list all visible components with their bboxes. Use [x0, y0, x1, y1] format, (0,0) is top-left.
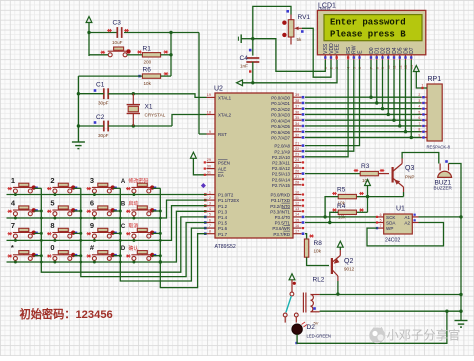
svg-text:5: 5: [209, 213, 211, 217]
resistor R1: [142, 53, 160, 57]
node row junction: [132, 193, 135, 196]
svg-text:U2: U2: [214, 86, 223, 93]
svg-text:P2.0/A8: P2.0/A8: [274, 144, 290, 149]
wire: [78, 125, 103, 127]
svg-text:17: 17: [295, 230, 299, 234]
keypad button row1 col1: [13, 183, 33, 193]
wire LCD D0 drop: [370, 60, 372, 97]
svg-text:X1: X1: [145, 104, 153, 111]
wire P3.5 SDA to U1 SDA: [305, 222, 378, 224]
svg-text:PSEN: PSEN: [218, 161, 230, 166]
node VCC/C3 junction: [87, 31, 90, 34]
keypad button row1 col4: [131, 183, 151, 193]
svg-text:P1.1/T2EX: P1.1/T2EX: [218, 198, 239, 203]
U2 pin 5 P1.4: [207, 216, 216, 218]
svg-text:P0.0/AD0: P0.0/AD0: [271, 95, 290, 100]
wire P0.7 bus: [305, 136, 421, 138]
svg-text:10k: 10k: [144, 81, 152, 86]
wire P2.5 to R3: [305, 173, 360, 175]
wire P3.7 to R8: [305, 234, 307, 239]
ground (crystal): [72, 142, 85, 149]
node row junction: [132, 217, 135, 220]
wire LCD D6 drop: [405, 60, 407, 132]
svg-text:200: 200: [144, 60, 152, 65]
node D1/P0.1: [375, 101, 378, 104]
power +5V (relay common): [289, 274, 295, 280]
wire +5V to VEE: [243, 60, 337, 83]
svg-text:P1.7: P1.7: [218, 232, 228, 237]
svg-text:P2.6/A14: P2.6/A14: [272, 177, 291, 182]
RP1 pin 5: [421, 113, 427, 115]
svg-text:24: 24: [295, 158, 299, 162]
wire P0.3 bus: [305, 113, 421, 115]
svg-text:3: 3: [209, 202, 211, 206]
svg-text:18: 18: [207, 110, 211, 114]
svg-text:21: 21: [295, 141, 299, 145]
wire RS to P2.2: [305, 60, 348, 157]
wire P0.6 bus: [305, 131, 421, 133]
RV1 terminal marks: [282, 21, 286, 25]
svg-text:7: 7: [209, 224, 211, 228]
relay contact NO: [294, 313, 298, 317]
node column junction: [79, 210, 82, 213]
wire RST node vertical: [170, 33, 172, 77]
keypad button row3 col1: [13, 228, 33, 238]
keypad button row3 col2: [52, 228, 72, 238]
svg-text:P2.4/A12: P2.4/A12: [272, 166, 291, 171]
svg-text:C2: C2: [96, 114, 105, 121]
wire R5-right / Q3 emitter: [356, 196, 403, 198]
node: [169, 31, 172, 34]
capacitor C4: [246, 58, 259, 62]
U1 pin 5 SDA: [378, 222, 384, 224]
U2 pin 19 XTAL1: [207, 96, 216, 98]
svg-text:AT89S52: AT89S52: [215, 244, 236, 250]
U2 pin 1 P1.0/T2: [207, 194, 216, 196]
svg-text:RP1: RP1: [428, 76, 442, 83]
RP1 pin 8: [421, 131, 427, 133]
respack RP1 body: [427, 84, 442, 141]
svg-text:9: 9: [209, 130, 211, 134]
U2 pin 31 EA: [207, 174, 216, 176]
svg-text:P3.5/T1: P3.5/T1: [275, 221, 291, 226]
node crossing: [119, 239, 122, 242]
microcontroller U2 AT89S52 body: [215, 93, 293, 238]
wire: [78, 93, 103, 95]
wire A2 to WP: [367, 223, 444, 246]
node: [251, 37, 254, 40]
svg-text:P2.5/A13: P2.5/A13: [272, 172, 291, 177]
node column junction: [119, 232, 122, 235]
svg-text:1: 1: [209, 190, 211, 194]
node column junction: [119, 254, 122, 257]
svg-text:P1.2: P1.2: [218, 204, 228, 209]
svg-text:P2.2/A10: P2.2/A10: [272, 155, 291, 160]
node crossing: [159, 217, 162, 220]
U2 pin 39 P0.0/AD0: [293, 96, 302, 98]
svg-text:27: 27: [295, 175, 299, 179]
wire R6 to ground rail: [78, 75, 142, 77]
U2 pin 23 P2.2/A10: [293, 156, 302, 158]
node column junction: [40, 210, 43, 213]
svg-text:P3.2/INT0: P3.2/INT0: [270, 204, 290, 209]
wire C1 to XTAL1: [108, 94, 206, 98]
U2 pin 15 P3.5/T1: [293, 222, 302, 224]
crystal X1: [132, 94, 134, 105]
svg-text:RST: RST: [218, 132, 227, 137]
svg-text:C3: C3: [113, 20, 122, 27]
U2 pin 32 P0.7/AD7: [293, 136, 302, 138]
wire LCD D1 drop: [376, 60, 378, 103]
U2 pin 33 P0.6/AD6: [293, 131, 302, 133]
svg-text:3: 3: [90, 176, 94, 185]
U2 pin 35 P0.4/AD4: [293, 119, 302, 121]
U2 pin 9 RST: [207, 133, 216, 135]
node column junction: [119, 210, 122, 213]
svg-text:R4: R4: [337, 203, 346, 210]
svg-text:XTAL1: XTAL1: [218, 96, 232, 101]
node crossing: [40, 217, 43, 220]
U2 pin 36 P0.3/AD3: [293, 113, 302, 115]
U1 pin 6 SCK: [378, 216, 384, 218]
node row junction: [53, 217, 56, 220]
keypad button row4 col2: [52, 251, 72, 261]
svg-text:7: 7: [11, 221, 15, 230]
wire RST top: [171, 32, 199, 34]
wire RV1 wiper to VDD: [302, 28, 331, 77]
svg-text:6: 6: [90, 199, 94, 208]
keypad button row2 col3: [92, 206, 112, 216]
wire R4 left to SDA: [330, 212, 338, 222]
svg-text:P1.6: P1.6: [218, 226, 228, 231]
node crossing: [40, 239, 43, 242]
svg-text:R6: R6: [143, 67, 152, 74]
node: [77, 92, 80, 95]
wire LED to ground rail: [297, 311, 447, 343]
wire Q2 collector down: [337, 281, 339, 294]
svg-text:P3.7/RD: P3.7/RD: [273, 232, 290, 237]
power +5V (EA): [191, 152, 197, 158]
svg-text:30: 30: [207, 164, 211, 168]
wire: [89, 32, 117, 34]
keypad button row1 col2: [52, 183, 72, 193]
svg-text:*: *: [11, 243, 14, 252]
node row junction: [93, 239, 96, 242]
node column junction: [79, 232, 82, 235]
svg-text:PNP: PNP: [405, 175, 414, 180]
wire A1 to ground rail: [419, 216, 462, 218]
svg-text:RV1: RV1: [298, 14, 311, 21]
svg-text:24C02: 24C02: [385, 238, 400, 244]
node D7/P0.7: [410, 136, 413, 139]
wire LCD D7 drop: [410, 60, 412, 137]
wire P0.4 bus: [305, 119, 421, 121]
keypad button row4 col1: [13, 251, 33, 261]
node row junction: [53, 261, 56, 264]
RP1 pin 3: [421, 102, 427, 104]
resistor R8: [304, 239, 308, 257]
relay contact NC: [283, 313, 287, 317]
wire LCD D4 drop: [393, 60, 395, 120]
svg-text:RESPACK-8: RESPACK-8: [427, 145, 451, 150]
U2 origin diamond: [201, 183, 206, 188]
node D2/P0.2: [381, 107, 384, 110]
svg-text:P0.1/AD1: P0.1/AD1: [271, 101, 290, 106]
svg-text:8: 8: [50, 221, 54, 230]
svg-text:SCK: SCK: [386, 215, 396, 220]
wire keypad row 3 to P1.2: [7, 206, 207, 241]
wire power to RP1 pin1: [416, 72, 427, 89]
svg-text:D7: D7: [409, 47, 415, 54]
wire RV1 top to GND rail: [253, 6, 291, 38]
node: [251, 81, 254, 84]
wire: [108, 125, 172, 127]
capacitor C3: [117, 27, 121, 38]
svg-text:14: 14: [295, 213, 299, 217]
svg-text:A: A: [121, 179, 126, 185]
node: [366, 195, 369, 198]
node row junction: [53, 239, 56, 242]
RP1 pin 7: [421, 125, 427, 127]
U2 pin 38 P0.1/AD1: [293, 102, 302, 104]
wire LCD D5 drop: [399, 60, 401, 126]
keypad button row1 col3: [92, 183, 112, 193]
svg-text:P1.3: P1.3: [218, 209, 228, 214]
transistor Q3 PNP: [393, 159, 404, 193]
power +5V (LCD): [237, 80, 243, 86]
svg-text:28: 28: [295, 181, 299, 185]
power +5V (Q3/pullups): [365, 180, 371, 186]
wire: [89, 54, 108, 56]
node (col4/row4 cross): [159, 260, 162, 263]
svg-text:P3.3/INT1: P3.3/INT1: [270, 209, 290, 214]
U2 pin 21 P2.0/A8: [293, 145, 302, 147]
node: [77, 124, 80, 127]
svg-text:10k: 10k: [314, 248, 322, 253]
wire: [161, 54, 171, 56]
node: [459, 293, 462, 296]
relay common pin: [291, 280, 293, 292]
node column junction: [40, 232, 43, 235]
wire P3.4 SCL to U1 SCK: [305, 216, 378, 218]
svg-text:Q2: Q2: [344, 258, 353, 265]
svg-text:A1: A1: [404, 215, 410, 220]
wire keypad column 3 to P1.6: [120, 188, 206, 281]
node row junction: [93, 217, 96, 220]
node D3/P0.3: [387, 113, 390, 116]
keypad button row4 col4: [131, 251, 151, 261]
svg-text:10: 10: [295, 190, 299, 194]
node SDA: [328, 221, 331, 224]
node row junction: [14, 193, 17, 196]
wire C2 to XTAL2: [172, 115, 207, 127]
U2 pin 3 P1.2: [207, 205, 216, 207]
relay common contact: [290, 292, 294, 296]
svg-text:P2.3/A11: P2.3/A11: [272, 161, 290, 166]
keypad button row2 col4: [131, 206, 151, 216]
svg-text:P0.7/AD7: P0.7/AD7: [271, 136, 290, 141]
relay RL2 coil: [303, 293, 319, 313]
watermark logo: [369, 328, 385, 344]
svg-text:6: 6: [380, 213, 382, 217]
svg-text:A2: A2: [404, 221, 410, 226]
svg-text:初始密码：123456: 初始密码：123456: [20, 307, 113, 321]
wire RW to P2.1: [305, 60, 354, 151]
wire keypad row 1 to P1.0: [7, 194, 207, 196]
svg-text:LM016L: LM016L: [318, 7, 331, 11]
svg-text:P0.4/AD4: P0.4/AD4: [271, 118, 290, 123]
wire ground vertical: [77, 76, 79, 142]
wire keypad row 2 to P1.1: [7, 200, 207, 218]
U2 pin 29 PSEN: [207, 161, 216, 163]
power +5V (RP1): [413, 66, 419, 72]
svg-text:XTAL2: XTAL2: [218, 113, 232, 118]
wire P0.2 bus: [305, 108, 421, 110]
svg-text:P1.4: P1.4: [218, 215, 228, 220]
svg-text:CRYSTAL: CRYSTAL: [145, 113, 166, 118]
RP1 pin 4: [421, 108, 427, 110]
svg-text:35: 35: [295, 116, 299, 120]
node column junction: [79, 254, 82, 257]
node crossing: [79, 261, 82, 264]
svg-text:D: D: [121, 246, 126, 252]
svg-text:19: 19: [207, 93, 211, 97]
capacitor C2: [104, 121, 108, 132]
transistor Q2 9012: [332, 250, 340, 281]
svg-text:5k: 5k: [297, 37, 303, 42]
keypad button row3 col3: [92, 228, 112, 238]
svg-text:R5: R5: [337, 187, 346, 194]
LCD1 LM016L body: [317, 10, 425, 54]
RP1 pin 2: [421, 96, 427, 98]
svg-text:5: 5: [50, 199, 54, 208]
node crossing: [119, 217, 122, 220]
svg-text:2: 2: [50, 176, 54, 185]
U2 pin 12 P3.2/INT0: [293, 205, 302, 207]
wire: [339, 247, 341, 250]
svg-text:Enter password: Enter password: [330, 18, 406, 28]
svg-text:29: 29: [207, 158, 211, 162]
svg-text:26: 26: [295, 169, 299, 173]
wire: [88, 23, 90, 57]
eeprom U1 24C02 body: [384, 214, 413, 234]
svg-text:R8: R8: [314, 240, 323, 247]
svg-text:9012: 9012: [344, 267, 355, 272]
U2 pin 22 P2.1/A9: [293, 150, 302, 152]
svg-text:9: 9: [90, 221, 94, 230]
node: [445, 310, 448, 313]
node column junction: [159, 210, 162, 213]
U2 pin 2 P1.1/T2EX: [207, 199, 216, 201]
resistor R5: [338, 194, 356, 198]
U2 pin 28 P2.7/A15: [293, 184, 302, 186]
wire GND to VSS: [253, 39, 325, 72]
U2 pin 17 P3.7/RD: [293, 233, 302, 235]
svg-text:32: 32: [295, 133, 299, 137]
svg-text:WP: WP: [386, 226, 393, 231]
wire coil top rail: [320, 294, 461, 296]
svg-text:EA: EA: [218, 173, 224, 178]
U2 pin 7 P1.6: [207, 227, 216, 229]
keypad button row2 col2: [52, 206, 72, 216]
svg-text:2: 2: [209, 196, 211, 200]
node SCL: [323, 215, 326, 218]
svg-text:0: 0: [50, 243, 54, 252]
wire Q3 collector to buzzer: [402, 153, 439, 164]
svg-text:P2.7/A15: P2.7/A15: [272, 183, 291, 188]
svg-text:ALE: ALE: [218, 167, 226, 172]
node crossing: [79, 239, 82, 242]
buzzer BUZ1: [438, 171, 452, 177]
svg-text:U1: U1: [396, 206, 405, 213]
wire C4 bottom: [252, 62, 254, 83]
U2 pin 10 P3.0/RXD: [293, 194, 302, 196]
wire keypad row 4 to P1.3: [7, 211, 207, 262]
wire: [367, 186, 369, 197]
svg-text:R1: R1: [143, 46, 152, 53]
svg-text:P3.6/WR: P3.6/WR: [272, 226, 290, 231]
LED D2 LED-GREEN: [292, 324, 302, 334]
svg-text:P1.5: P1.5: [218, 221, 228, 226]
U1 pin 2 A1: [412, 216, 418, 218]
svg-text:P0.5/AD5: P0.5/AD5: [271, 124, 290, 129]
ground (right): [455, 321, 468, 328]
power +5V (reset circuit): [86, 17, 92, 23]
svg-text:Please press B: Please press B: [330, 29, 406, 39]
svg-text:P0.6/AD6: P0.6/AD6: [271, 130, 290, 135]
svg-text:15: 15: [295, 218, 299, 222]
svg-text:30pF: 30pF: [98, 133, 109, 138]
node X1 bottom: [132, 124, 135, 127]
wire P0.5 bus: [305, 125, 421, 127]
resistor R6: [142, 74, 160, 78]
node D6/P0.6: [404, 130, 407, 133]
svg-text:P2.1/A9: P2.1/A9: [274, 149, 290, 154]
ground terminal (LCD VSS net): [241, 38, 253, 40]
node row junction: [132, 239, 135, 242]
resistor R4: [338, 210, 356, 214]
node: [169, 53, 172, 56]
LCD screen: [324, 15, 422, 41]
svg-text:36: 36: [295, 110, 299, 114]
svg-text:7: 7: [380, 224, 382, 228]
U2 pin 26 P2.5/A13: [293, 173, 302, 175]
svg-text:34: 34: [295, 122, 299, 126]
svg-text:SDA: SDA: [386, 221, 396, 226]
svg-text:C: C: [121, 224, 126, 230]
svg-text:小邓子分享官: 小邓子分享官: [387, 328, 461, 343]
svg-text:16: 16: [295, 224, 299, 228]
node crossing: [40, 261, 43, 264]
node: [459, 215, 462, 218]
wire coil bottom rail: [320, 310, 461, 312]
svg-text:C4: C4: [240, 55, 249, 62]
wire: [124, 32, 171, 34]
svg-text:38: 38: [295, 99, 299, 103]
wire R8 to Q2 base: [307, 257, 329, 265]
relay lever: [286, 296, 292, 313]
svg-text:12: 12: [295, 202, 299, 206]
wire: [127, 54, 142, 56]
node: [336, 292, 339, 295]
wire to R4 right: [367, 197, 369, 213]
wire: [403, 192, 405, 197]
wire R5 left to SCL: [325, 197, 338, 217]
potentiometer RV1: [288, 20, 294, 37]
wire: [161, 75, 171, 77]
svg-text:R3: R3: [361, 163, 370, 170]
svg-text:P0.2/AD2: P0.2/AD2: [271, 107, 290, 112]
